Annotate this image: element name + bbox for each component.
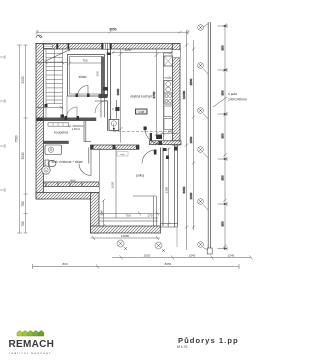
left dimension line outer xyxy=(17,45,22,233)
svg-text:Půdorys 1.pp: Půdorys 1.pp xyxy=(178,336,239,345)
svg-text:800: 800 xyxy=(62,262,67,266)
mid wall left segment (hall/pokoj) xyxy=(91,145,140,149)
svg-text:8080: 8080 xyxy=(182,186,186,193)
svg-text:pr: pr xyxy=(45,169,47,172)
stair dimension line across xyxy=(36,61,67,64)
sklad top dim line xyxy=(68,62,104,65)
svg-text:360: 360 xyxy=(96,71,100,76)
svg-text:380: 380 xyxy=(221,175,225,180)
svg-text:2030: 2030 xyxy=(189,192,193,199)
tech room door arc xyxy=(79,164,91,176)
bathroom door posts xyxy=(65,116,80,120)
right wall window break 1 xyxy=(172,50,181,58)
svg-text:2930: 2930 xyxy=(21,76,25,83)
sklad east wall band xyxy=(99,57,108,118)
kitchen SE door posts xyxy=(156,135,169,160)
pokoj east wall double line xyxy=(161,148,164,227)
step wall vertical xyxy=(91,193,100,234)
hall door to kitchen arc xyxy=(145,129,161,145)
left dimension numbers (rotated) xyxy=(15,76,26,226)
pokoj door posts xyxy=(154,150,157,155)
fridge box xyxy=(164,56,173,66)
svg-text:3700: 3700 xyxy=(152,91,156,98)
pokoj dims xyxy=(111,181,153,217)
manhole symbol right xyxy=(155,242,165,252)
stove unit xyxy=(164,93,173,104)
closet label xyxy=(117,152,128,157)
svg-text:4050: 4050 xyxy=(125,48,132,52)
bottom inner dim chain xyxy=(99,212,160,216)
bathroom north wall xyxy=(44,118,97,121)
bathroom annotation xyxy=(67,125,84,131)
svg-text:1500: 1500 xyxy=(189,136,193,143)
sklad room outline xyxy=(68,55,105,97)
svg-text:750: 750 xyxy=(82,59,87,63)
svg-text:tepl. 400/400mm: tepl. 400/400mm xyxy=(67,125,84,128)
svg-text:myčka: myčka xyxy=(165,77,173,80)
top dimension numbers xyxy=(109,28,116,32)
svg-text:1.08: 1.08 xyxy=(138,110,144,114)
wall joint block xyxy=(37,118,44,122)
sklad door arc xyxy=(78,86,89,97)
svg-text:4. průd.: 4. průd. xyxy=(228,92,238,96)
bathtub xyxy=(45,145,62,155)
vent circle 1 xyxy=(198,24,209,31)
svg-text:M 1:75: M 1:75 xyxy=(177,345,187,349)
bathroom radiator xyxy=(48,123,69,126)
logo houses icon xyxy=(17,331,44,337)
top dimension line xyxy=(36,30,190,35)
svg-text:380: 380 xyxy=(221,133,225,138)
svg-text:940: 940 xyxy=(70,179,75,183)
svg-text:380: 380 xyxy=(221,90,225,95)
bathroom east wall xyxy=(84,121,91,142)
svg-text:realitní koncept: realitní koncept xyxy=(9,351,52,355)
svg-text:1540: 1540 xyxy=(189,254,196,258)
left dimension line inner xyxy=(24,45,28,233)
stair bottom door posts xyxy=(45,104,65,118)
bottom dim line 1 xyxy=(112,254,253,260)
svg-text:2500: 2500 xyxy=(189,78,193,85)
svg-text:K: K xyxy=(112,107,114,111)
svg-text:REMACH: REMACH xyxy=(9,339,55,350)
section marker top-left xyxy=(36,35,42,38)
outer wall bottom-right band xyxy=(91,224,178,234)
svg-text:7580: 7580 xyxy=(15,135,19,142)
mid wall right segment (kitchen/pokoj) xyxy=(150,133,182,151)
vent circle 3 xyxy=(198,108,209,119)
svg-text:2620: 2620 xyxy=(111,181,115,188)
svg-text:tech. místnost + sklad: tech. místnost + sklad xyxy=(52,160,83,164)
svg-text:13080: 13080 xyxy=(121,234,130,238)
kitchen door posts xyxy=(144,127,147,131)
stair direction diagonal xyxy=(46,49,71,61)
pokoj SE closet lines xyxy=(133,196,157,226)
interior dim line kitchen east xyxy=(152,49,159,139)
staircase xyxy=(46,49,63,117)
WC xyxy=(45,160,56,167)
svg-text:140/140mm: 140/140mm xyxy=(228,98,247,102)
right second dim line xyxy=(189,40,195,230)
hall door arc xyxy=(95,101,108,114)
vent pipe double line xyxy=(207,22,212,254)
terrace east edge lines xyxy=(175,145,178,227)
interior vertical dim line center xyxy=(116,49,123,142)
svg-text:3040: 3040 xyxy=(21,152,25,159)
kitchen counter line xyxy=(164,53,173,140)
vent circle 2 xyxy=(198,63,209,74)
far right dim line xyxy=(221,24,227,251)
tech room east wall xyxy=(89,148,91,164)
kitchen top dim line xyxy=(112,48,173,54)
pokoj door arc xyxy=(142,150,156,164)
corner extension line xyxy=(176,227,178,247)
svg-text:8050: 8050 xyxy=(109,28,116,32)
pokoj west line xyxy=(98,148,100,192)
tech room inner south wall xyxy=(44,182,100,187)
vent circle 6 xyxy=(198,242,209,250)
svg-text:8050: 8050 xyxy=(165,262,172,266)
right inner dimension line xyxy=(182,30,188,250)
bathroom door arc xyxy=(67,107,78,118)
svg-text:380: 380 xyxy=(221,45,225,50)
svg-text:ø 50mm: ø 50mm xyxy=(72,129,81,131)
counter lower boxes xyxy=(164,106,173,130)
svg-text:2380: 2380 xyxy=(164,186,168,193)
svg-text:1540: 1540 xyxy=(228,254,235,258)
outer wall top xyxy=(36,44,180,50)
outer wall right xyxy=(173,44,181,146)
svg-text:170: 170 xyxy=(147,214,152,218)
kitchen room number box xyxy=(136,109,148,114)
svg-text:380: 380 xyxy=(221,221,225,226)
bottom dim under step xyxy=(91,234,161,240)
svg-text:750: 750 xyxy=(125,214,130,218)
outer wall left xyxy=(36,44,44,200)
bathroom south wall xyxy=(44,141,69,144)
top wall chimney break xyxy=(103,43,110,49)
step wall dim line xyxy=(99,199,105,227)
washing machine xyxy=(42,166,50,174)
svg-text:3980: 3980 xyxy=(116,88,120,95)
tech sill ticks xyxy=(46,183,82,186)
pokoj inner outline xyxy=(99,148,158,222)
duct label xyxy=(213,92,247,107)
svg-text:sklad: sklad xyxy=(79,75,87,79)
top wall window segment xyxy=(44,44,52,48)
svg-text:780: 780 xyxy=(21,221,25,227)
corridor wall pair xyxy=(108,49,111,131)
pokoj east dim line xyxy=(164,148,170,228)
hall door header lines xyxy=(95,97,108,102)
bottom dim line 2 xyxy=(33,262,240,269)
terrace door dim 175 xyxy=(161,130,178,136)
sink unit xyxy=(164,81,173,94)
kitchen door frame line xyxy=(115,100,119,119)
svg-text:2020: 2020 xyxy=(144,254,151,258)
manhole symbol left xyxy=(117,240,127,250)
svg-text:960: 960 xyxy=(99,210,103,215)
vent circle 4 xyxy=(198,147,209,158)
svg-text:10080: 10080 xyxy=(182,90,186,99)
top wall ticks xyxy=(56,43,111,49)
svg-text:obytná kuchyň: obytná kuchyň xyxy=(130,95,152,99)
pipe tick arrows xyxy=(218,24,228,251)
outer wall bottom-left xyxy=(36,193,99,200)
left edge page marks xyxy=(0,55,5,192)
svg-text:780: 780 xyxy=(21,201,25,207)
svg-text:koupelna: koupelna xyxy=(54,131,68,135)
svg-text:175: 175 xyxy=(168,130,173,134)
corridor wall dark blocks xyxy=(103,53,111,91)
section dashed line xyxy=(113,131,172,133)
hall west line xyxy=(66,96,68,118)
vent circle 5 xyxy=(198,199,209,210)
svg-text:pokoj: pokoj xyxy=(136,174,144,178)
under-stair dim line xyxy=(36,106,63,109)
shaft box xyxy=(109,120,119,131)
sklad door posts xyxy=(76,94,90,98)
